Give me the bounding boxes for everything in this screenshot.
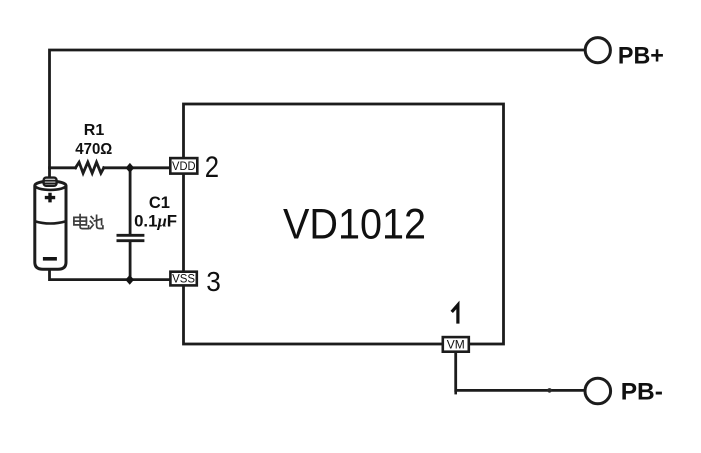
svg-text:3: 3 bbox=[206, 266, 221, 297]
svg-text:VM: VM bbox=[447, 338, 465, 352]
svg-text:VDD: VDD bbox=[172, 159, 196, 173]
svg-text:VSS: VSS bbox=[172, 272, 195, 286]
svg-text:PB-: PB- bbox=[621, 379, 663, 406]
svg-text:0.1μF: 0.1μF bbox=[134, 211, 177, 230]
svg-text:2: 2 bbox=[205, 151, 219, 184]
svg-text:C1: C1 bbox=[149, 194, 170, 212]
svg-text:VD1012: VD1012 bbox=[283, 202, 426, 249]
svg-text:R1: R1 bbox=[84, 122, 105, 139]
svg-text:PB+: PB+ bbox=[618, 42, 664, 69]
svg-text:470Ω: 470Ω bbox=[75, 141, 112, 158]
